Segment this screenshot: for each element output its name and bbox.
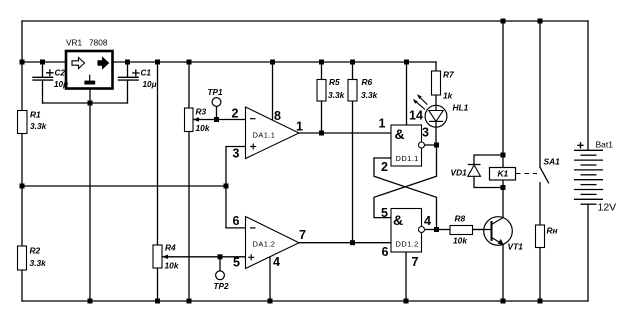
svg-text:6: 6: [233, 214, 240, 228]
svg-text:10k: 10k: [453, 236, 467, 246]
svg-text:4: 4: [273, 255, 280, 269]
node VR1 gnd bottom: [88, 299, 93, 304]
wire bubble4 to node: [425, 229, 437, 231]
svg-text:3: 3: [422, 126, 429, 140]
resistor R5: [317, 77, 345, 101]
wire HL1 to node3: [435, 127, 437, 145]
svg-text:10μ: 10μ: [143, 80, 157, 89]
svg-text:DD1.2: DD1.2: [396, 240, 419, 249]
node VT1 emitter bottom: [501, 299, 506, 304]
node K1 top rail: [501, 19, 506, 24]
svg-text:R8: R8: [455, 214, 466, 224]
node R3 bottom: [187, 299, 192, 304]
wire +8V rail left of VR1: [22, 61, 66, 63]
battery plus label: [577, 142, 583, 148]
wire K1 to VT1 collector: [502, 180, 504, 218]
diode VD1: [451, 165, 481, 178]
node C1 top: [125, 60, 130, 65]
svg-text:R5: R5: [329, 77, 340, 87]
wire TP1 stem: [216, 107, 218, 120]
wire bubble3 to node: [425, 144, 437, 146]
node R4 bottom: [155, 299, 160, 304]
wire node4 to R8: [437, 229, 451, 231]
capacitor C2: [33, 77, 53, 80]
svg-text:&: &: [393, 212, 403, 228]
svg-text:K1: K1: [498, 169, 509, 179]
node opamp inputs: [224, 184, 229, 189]
label +C2 10u: [46, 69, 54, 76]
svg-text:5: 5: [381, 206, 388, 220]
node pin4 bottom: [268, 299, 273, 304]
wire DA1.2 pin4 to ground: [269, 257, 271, 301]
svg-text:Rн: Rн: [547, 226, 558, 236]
wire +8V rail right of VR1: [113, 61, 437, 63]
svg-text:R7: R7: [443, 70, 454, 80]
wire R5 branch: [321, 62, 323, 133]
VR1 output filled arrow: [98, 58, 109, 69]
svg-text:TP1: TP1: [208, 88, 223, 97]
wire DD1.2 pin7 to ground: [405, 252, 407, 301]
wire C1 branch: [127, 62, 129, 103]
wire R3 vertical branch: [188, 62, 190, 301]
relay coil K1: [490, 168, 516, 181]
svg-text:&: &: [395, 126, 405, 142]
svg-text:12V: 12V: [598, 202, 617, 214]
wire bottom ground rail: [22, 300, 588, 302]
wire VT1 emitter to ground: [502, 244, 504, 301]
node VR1 gnd: [88, 101, 93, 106]
node rail2 left: [20, 60, 25, 65]
node TP2: [218, 254, 223, 259]
wire left vertical rail: [21, 21, 23, 301]
svg-text:VT1: VT1: [508, 242, 524, 252]
svg-text:HL1: HL1: [453, 103, 469, 113]
svg-text:1k: 1k: [443, 91, 453, 101]
svg-text:TP2: TP2: [214, 282, 229, 291]
node TP1: [214, 117, 219, 122]
label +C1 10u: [132, 69, 140, 76]
svg-text:3.3k: 3.3k: [328, 90, 345, 100]
NAND gate DD1.2: [391, 209, 425, 253]
node R5 output: [319, 131, 324, 136]
resistor R6: [348, 77, 378, 101]
wire DD1.1 pin3 node cross-couple to DD1.2 pin5: [374, 145, 437, 218]
wire R8 to VT1 base: [473, 229, 492, 231]
load resistor Rn: [536, 225, 558, 248]
svg-text:1: 1: [296, 120, 303, 134]
svg-text:R4: R4: [165, 243, 176, 253]
wire DA1.2 output to DD1.2 pin6: [299, 242, 391, 244]
svg-text:10k: 10k: [196, 123, 210, 133]
wire DA1.1 pin3 input: [226, 147, 246, 187]
svg-text:7: 7: [299, 228, 306, 242]
node VD1 top: [501, 153, 506, 158]
svg-text:3.3k: 3.3k: [361, 90, 378, 100]
svg-text:7: 7: [412, 255, 419, 269]
svg-text:3.3k: 3.3k: [30, 121, 47, 131]
node pin8 rail: [270, 60, 275, 65]
svg-text:R1: R1: [30, 110, 41, 120]
svg-text:14: 14: [409, 109, 423, 123]
svg-text:1: 1: [379, 117, 386, 131]
svg-text:8: 8: [274, 109, 281, 123]
resistor R8: [450, 214, 473, 246]
svg-text:VR1: VR1: [66, 38, 83, 48]
wire R4 vertical branch: [157, 62, 159, 301]
wire R3 wiper to DA1.1 pin2: [193, 119, 246, 121]
wire under VR1: [43, 102, 128, 104]
test point TP1: [208, 88, 223, 106]
wire VD1 parallel branch: [474, 155, 503, 188]
node R3 rail: [187, 60, 192, 65]
node divider left: [20, 184, 25, 189]
op-amp DA1.2: [246, 217, 300, 269]
svg-text:R6: R6: [362, 77, 373, 87]
svg-text:6: 6: [382, 245, 389, 259]
potentiometer R3: [185, 107, 210, 134]
wire SA1 blade: [540, 167, 549, 182]
resistor R1: [18, 111, 28, 134]
LED HL1: [413, 94, 469, 127]
wire DD1 pin14 power: [406, 62, 408, 125]
node R6 rail: [350, 60, 355, 65]
svg-text:DD1.1: DD1.1: [396, 154, 419, 163]
wire R7 top: [435, 62, 437, 71]
svg-text:VD1: VD1: [451, 168, 468, 178]
svg-text:DA1.1: DA1.1: [253, 131, 276, 140]
svg-text:Bat1: Bat1: [596, 140, 614, 150]
node R4 rail: [155, 60, 160, 65]
wire SA1 to Rn to ground: [539, 183, 541, 301]
svg-text:5: 5: [233, 256, 240, 270]
node VD1 bottom: [501, 185, 506, 190]
svg-text:3: 3: [233, 147, 240, 161]
wire divider node to opamp inputs: [22, 185, 226, 187]
battery Bat1: [574, 150, 603, 204]
wire R7 to HL1: [435, 95, 437, 105]
wire SA1 branch from +12V: [539, 21, 541, 167]
wire DA1.2 pin6 input: [226, 186, 246, 228]
VR1 input hollow arrow: [72, 58, 85, 69]
wire right battery vertical bottom: [587, 204, 589, 301]
resistor R2: [18, 246, 27, 270]
node DD1.2 out: [434, 227, 439, 232]
svg-text:10μ: 10μ: [54, 80, 68, 89]
resistor R7: [432, 70, 455, 101]
svg-text:R3: R3: [196, 107, 207, 117]
wire R6 branch: [352, 62, 354, 243]
wire TP2 stem: [219, 257, 221, 271]
svg-text:SA1: SA1: [544, 157, 561, 167]
node pin7 bottom: [404, 299, 409, 304]
wire top +12V rail: [22, 20, 588, 22]
wire right battery vertical top: [587, 21, 589, 150]
wire relay branch from +12V: [502, 21, 504, 168]
voltage regulator VR1 box: [66, 51, 113, 89]
node DD1.1 out: [434, 143, 439, 148]
transistor VT1: [473, 217, 524, 252]
svg-text:10k: 10k: [165, 261, 179, 271]
node SA1 top rail: [538, 19, 543, 24]
NAND gate DD1.1: [391, 125, 425, 166]
potentiometer R4: [153, 243, 179, 271]
svg-text:2: 2: [232, 107, 239, 121]
wire DA1.1 pin8 power: [272, 62, 274, 120]
node pin14 rail: [404, 60, 409, 65]
node Rn bottom: [538, 299, 543, 304]
wire VR1 ground pin: [89, 89, 91, 302]
wire DA1.1 output to DD1.1 pin1: [299, 132, 391, 134]
node C2 top: [40, 60, 45, 65]
node R5 rail: [319, 60, 324, 65]
node R6 output: [350, 240, 355, 245]
svg-text:4: 4: [424, 214, 431, 228]
test point TP2: [214, 271, 229, 291]
svg-text:2: 2: [381, 160, 388, 174]
svg-text:DA1.2: DA1.2: [253, 240, 276, 249]
svg-text:3.3k: 3.3k: [30, 258, 47, 268]
svg-text:R2: R2: [30, 246, 41, 256]
VR1 ground symbol: [84, 75, 95, 85]
svg-text:7808: 7808: [89, 38, 108, 48]
wire C2 branch: [42, 62, 44, 103]
svg-text:C1: C1: [141, 68, 152, 77]
wire DD1.1 pin2 cross-couple to pin4 node: [374, 158, 437, 230]
capacitor C1: [119, 77, 139, 80]
wire R4 wiper to DA1.2 pin5: [162, 256, 246, 258]
switch SA1 dashed link: [516, 173, 537, 175]
svg-text:C2: C2: [55, 68, 66, 77]
op-amp DA1.1: [246, 107, 300, 159]
